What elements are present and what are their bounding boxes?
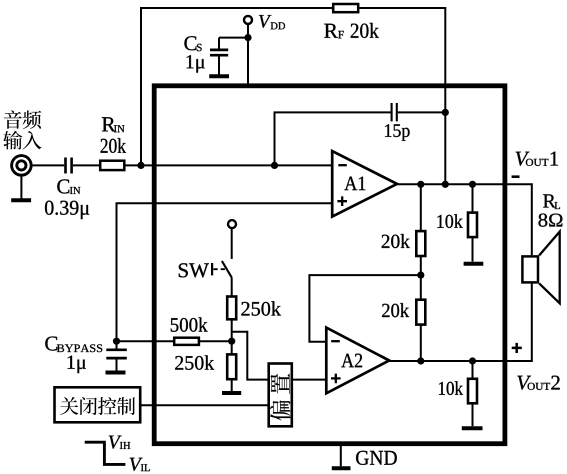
label 20k vertical 1 — [382, 234, 410, 248]
switch SW terminal circle — [228, 220, 236, 228]
ground bar CBYPASS — [106, 371, 126, 375]
wire CS bottom lead — [218, 56, 220, 74]
wire switch lead to terminal — [231, 229, 233, 259]
resistor 250k lower — [227, 354, 236, 379]
wire GND stub — [340, 446, 342, 467]
node 15p right — [442, 109, 449, 116]
wire 20k-1 bottom to mid node — [420, 256, 422, 275]
label 15p — [385, 124, 410, 141]
VOUT1 polarity minus — [512, 175, 520, 178]
ground bar CS — [209, 74, 229, 78]
op-amp A1 triangle — [332, 151, 397, 217]
wire 250k upper to switch — [231, 278, 233, 297]
VOUT2 polarity plus — [512, 343, 522, 353]
wire 10k-1 top lead — [472, 184, 474, 212]
node A1 out 20k — [417, 181, 424, 188]
wire 500k to divider node — [200, 340, 232, 342]
label VOUT2 — [517, 376, 531, 390]
wire bypass node to 500k — [117, 340, 175, 342]
node A1 out 10k — [469, 181, 476, 188]
VDD terminal circle — [244, 16, 252, 24]
wire bias box to A2 noninverting input — [292, 379, 327, 381]
wire divider node down to 250k lower — [231, 341, 233, 354]
resistor 500k — [174, 338, 199, 345]
capacitor CBYPASS 1u plates — [106, 350, 127, 358]
ground bar 250k lower — [222, 391, 241, 395]
node VDD CS — [244, 34, 251, 41]
switch SW actuator tick — [211, 263, 213, 275]
label CIN value — [45, 201, 89, 220]
switch SW actuator dashes — [214, 268, 226, 270]
label 10k upper — [437, 214, 462, 228]
waveform VIH VIL step — [85, 442, 126, 464]
node between 20k — [417, 272, 424, 279]
speaker RL magnet box — [522, 256, 538, 282]
wire 10k-2 top lead — [472, 361, 474, 379]
audio input jack outer circle — [12, 156, 32, 176]
wire branch node up to 15p cap — [275, 112, 391, 165]
label RIN — [102, 117, 116, 131]
resistor 20k vertical 2 — [416, 300, 425, 325]
label RL value 8 ohm — [539, 214, 563, 227]
label CBYPASS value 1u — [68, 356, 86, 374]
wire RIN to A1 inverting input — [125, 164, 333, 166]
wire mid node to A2 inverting input — [309, 275, 420, 342]
label 20k vertical 2 — [382, 303, 409, 317]
wire bias tap to bias box — [232, 332, 268, 380]
label VDD — [259, 15, 271, 28]
label 250k upper — [241, 301, 281, 315]
wire 20k-2 bottom to A2 output row — [420, 325, 422, 361]
wire A1 noninverting input to bypass node — [117, 203, 333, 341]
wire CBYPASS bottom lead — [116, 359, 118, 370]
resistor 10k upper — [468, 213, 477, 238]
wire 10k-1 bottom lead — [472, 237, 474, 261]
wire input jack to CIN — [31, 164, 64, 166]
wire input jack ground lead — [20, 175, 22, 199]
node RIN output — [137, 162, 144, 169]
label CS value 1u — [187, 55, 205, 73]
node A2 out 20k — [417, 357, 424, 364]
node 250k divider — [228, 338, 235, 345]
wire A2 output row to speaker — [388, 283, 532, 361]
wire 20k-2 top lead — [420, 275, 422, 299]
switch SW blade — [222, 261, 232, 278]
capacitor 15p plates — [392, 103, 397, 121]
node A1 out feedback — [442, 181, 449, 188]
node 15p branch — [271, 162, 278, 169]
wire VDD terminal down into IC — [247, 24, 249, 84]
label CBYPASS — [45, 337, 57, 351]
label 500k — [171, 317, 208, 331]
label VIH — [109, 436, 122, 449]
wire RF to right vertical down to A1 output — [360, 8, 446, 184]
resistor RF 20k — [333, 4, 358, 12]
capacitor CS 1u plates — [210, 50, 228, 55]
label CIN — [57, 179, 69, 193]
block shutdown control box — [55, 387, 141, 422]
label VOUT1 — [516, 152, 530, 166]
ground bar GND pin — [332, 466, 351, 470]
label bias text (rotated) — [270, 374, 289, 394]
ground bar input jack — [11, 198, 31, 202]
audio input jack inner circle — [17, 161, 26, 170]
label VIL — [130, 458, 143, 471]
ground bar 10k upper — [464, 262, 484, 266]
IC package box — [154, 86, 505, 444]
resistor 20k vertical 1 — [416, 231, 425, 256]
resistor 250k upper — [227, 297, 236, 320]
node A2 out 10k — [469, 357, 476, 364]
A2 noninverting sign — [331, 374, 341, 384]
speaker RL cone — [539, 232, 560, 304]
op-amp A2 triangle — [326, 328, 389, 394]
wire 250k lower to ground — [231, 380, 233, 392]
wire CS top lead — [218, 38, 220, 49]
label GND — [356, 451, 397, 465]
resistor RIN 20k — [100, 161, 124, 170]
label shutdown control text — [60, 397, 78, 415]
wire VDD node to CS — [219, 37, 248, 39]
A1 inverting sign — [338, 164, 347, 166]
A1 noninverting sign — [337, 196, 347, 206]
label 10k lower — [439, 381, 463, 395]
ground bar 10k lower — [462, 426, 483, 430]
block bias box — [269, 364, 292, 427]
wire 15p cap to right vertical — [398, 111, 446, 113]
node CBYPASS — [113, 338, 120, 345]
label CS — [184, 36, 196, 50]
wire feedback loop left vertical and top to RF — [141, 8, 333, 165]
wire CBYPASS top lead — [116, 341, 118, 348]
label 250k lower — [175, 355, 214, 369]
wire shutdown box to bias box — [141, 404, 269, 406]
capacitor CIN 0.39u plates — [66, 158, 72, 174]
label audio input line2 (shu ru) — [3, 131, 22, 150]
wire A1 output row to speaker — [397, 184, 532, 255]
A2 inverting sign — [331, 340, 340, 342]
label audio input line1 (yin pin) — [4, 110, 22, 129]
wire divider node up to 250k upper — [231, 320, 233, 342]
label RIN value 20k — [101, 138, 126, 153]
label RL — [543, 194, 556, 207]
label SW — [179, 263, 209, 277]
wire 10k-2 bottom lead — [472, 404, 474, 427]
wire CIN to RIN — [73, 164, 100, 166]
label RF 20k — [324, 24, 338, 38]
wire 20k-1 top lead — [420, 184, 422, 231]
resistor 10k lower — [468, 379, 477, 404]
label A1 — [344, 177, 365, 191]
label A2 — [341, 354, 362, 368]
